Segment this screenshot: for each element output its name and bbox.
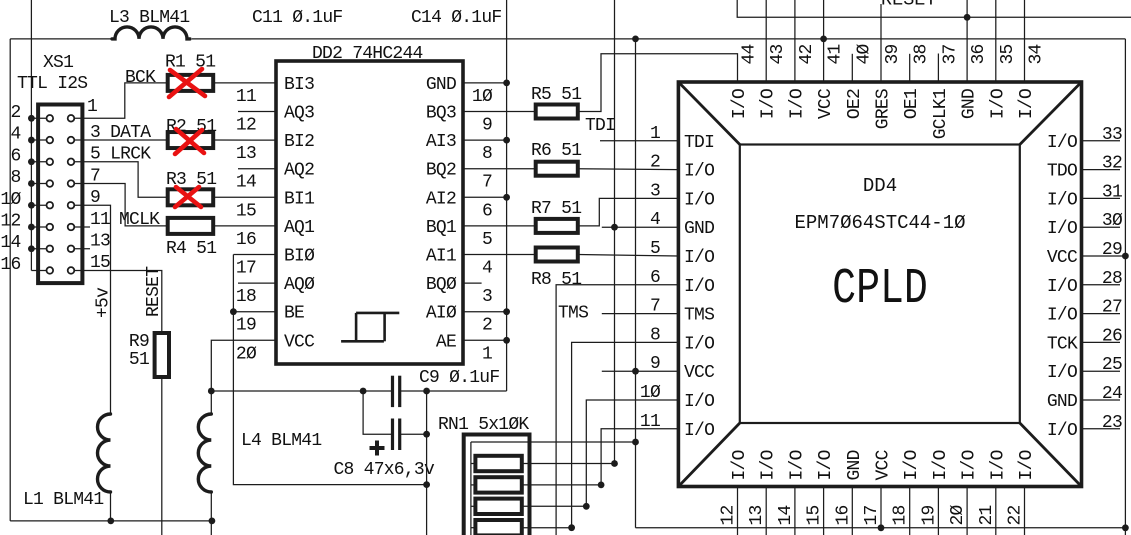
wire DD2 BQ3 to R5 bbox=[463, 111, 536, 113]
junction right vcc / CPLD pin 29 bbox=[1122, 253, 1129, 260]
wire +5V main horizontal (left of L3) bbox=[10, 38, 113, 40]
svg-text:2Ø: 2Ø bbox=[948, 504, 968, 525]
XS1 pin circle right bbox=[68, 158, 75, 165]
junction +5V / CPLD pin 41 bbox=[820, 36, 827, 43]
junction vcc bottom / CPLD pin 17 bbox=[878, 524, 885, 531]
svg-text:GND: GND bbox=[1047, 392, 1077, 412]
svg-text:34: 34 bbox=[1027, 44, 1047, 64]
svg-text:I/O: I/O bbox=[730, 450, 750, 480]
svg-text:GND: GND bbox=[845, 450, 865, 480]
svg-text:AIØ: AIØ bbox=[426, 304, 457, 324]
svg-text:15: 15 bbox=[236, 201, 256, 221]
DD2 gnd stub bbox=[463, 311, 507, 313]
CPLD bottom pin 21 line bbox=[995, 487, 997, 535]
resistor R2 bbox=[168, 132, 214, 148]
junction RN1 r2 bbox=[598, 482, 605, 489]
resistor R7 bbox=[536, 219, 578, 233]
svg-text:38: 38 bbox=[912, 44, 932, 64]
XS1 pin13 stub bbox=[75, 248, 90, 250]
gnd vertical 2 (to RN1) bbox=[614, 0, 616, 464]
svg-text:4: 4 bbox=[482, 259, 492, 279]
wire XS1 pin15 RESET down to R9 bbox=[75, 270, 162, 333]
wire vcc bottom bbox=[636, 527, 1126, 529]
svg-text:1: 1 bbox=[87, 97, 97, 117]
svg-text:MCLK: MCLK bbox=[119, 210, 160, 230]
junction C8 right bbox=[423, 431, 430, 438]
svg-text:I/O: I/O bbox=[1047, 277, 1077, 297]
CPLD right pin 33 stub bbox=[1082, 140, 1121, 142]
wire C9 right to gnd bbox=[400, 390, 507, 392]
XS1 pin circle left bbox=[47, 115, 54, 122]
CPLD right pin 24 stub bbox=[1082, 399, 1121, 401]
svg-text:XS1: XS1 bbox=[43, 53, 73, 73]
DD2 gnd stub bbox=[463, 339, 507, 341]
svg-text:AQ3: AQ3 bbox=[284, 104, 314, 124]
plus sign for C8 bbox=[370, 441, 385, 456]
RN1 resistor 4 right stub bbox=[522, 527, 572, 529]
svg-text:39: 39 bbox=[883, 44, 903, 64]
svg-text:AI3: AI3 bbox=[426, 132, 456, 152]
CPLD top pin 35 line bbox=[995, 0, 997, 82]
svg-text:BI2: BI2 bbox=[284, 132, 314, 152]
XS1 pin 12 wire bbox=[31, 226, 49, 228]
svg-text:14: 14 bbox=[0, 233, 20, 253]
wire XS1 pin7 to MCLK R4 bbox=[75, 184, 168, 226]
svg-text:VCC: VCC bbox=[284, 332, 315, 352]
CPLD bottom pin 22 line bbox=[1024, 487, 1026, 535]
svg-text:13: 13 bbox=[236, 144, 256, 164]
wire DD2 AI1 to R8 bbox=[463, 254, 536, 256]
RN1 resistor 4 left stub bbox=[471, 527, 476, 529]
XS1 pin circle right bbox=[68, 115, 75, 122]
DD2 pin 18 stub bbox=[238, 282, 276, 284]
wire R2 to DD2 pin 13 bbox=[213, 139, 276, 141]
junction ground bus pin row 6 bbox=[28, 224, 35, 231]
wire R8 to CPLD pin 5 bbox=[578, 255, 679, 257]
CPLD top pin 42 line bbox=[794, 0, 796, 82]
CPLD corner diagonal TL bbox=[678, 82, 739, 145]
CPLD top pin 34 line bbox=[1024, 0, 1026, 82]
XS1 pin circle left bbox=[47, 158, 54, 165]
svg-text:I/O: I/O bbox=[1017, 450, 1037, 480]
wire R5 to CPLD pin 44 bbox=[578, 54, 738, 112]
CPLD bottom pin 19 line bbox=[937, 487, 939, 535]
svg-text:I/O: I/O bbox=[816, 450, 836, 480]
schmitt trigger symbol inside DD2 bbox=[341, 340, 384, 343]
svg-text:R9: R9 bbox=[129, 332, 149, 352]
svg-text:RESET: RESET bbox=[881, 0, 937, 11]
CPLD right pin 28 stub bbox=[1082, 284, 1121, 286]
wire CPLD pin 11 to RN1 bbox=[601, 429, 678, 485]
junction vcc bottom / right vcc drop bbox=[1122, 524, 1129, 531]
right vcc drop bbox=[1124, 39, 1126, 535]
red X over R3 bbox=[175, 187, 201, 207]
DD2 gnd stub bbox=[463, 82, 507, 84]
wire bottom ground rail bbox=[10, 520, 212, 522]
junction gnd bbox=[503, 308, 510, 315]
svg-text:5: 5 bbox=[650, 239, 660, 259]
RN1 resistor 4 bbox=[475, 520, 521, 535]
svg-text:VCC: VCC bbox=[684, 363, 715, 383]
svg-text:26: 26 bbox=[1102, 326, 1122, 346]
junction BE net bbox=[230, 308, 237, 315]
svg-text:3Ø: 3Ø bbox=[1102, 211, 1123, 231]
wire left +5V drop to bottom rail bbox=[9, 39, 11, 521]
svg-text:DD4: DD4 bbox=[863, 175, 897, 197]
wire DD2 BQ2 to R6 bbox=[463, 168, 536, 170]
svg-text:12: 12 bbox=[236, 116, 256, 136]
CPLD pin 1 TDI stub bbox=[600, 140, 678, 142]
svg-text:24: 24 bbox=[1102, 384, 1122, 404]
CPLD top pin 40 line bbox=[851, 54, 853, 82]
svg-text:8: 8 bbox=[10, 168, 20, 188]
junction ground bus pin row 4 bbox=[28, 180, 35, 187]
svg-text:CPLD: CPLD bbox=[832, 260, 928, 318]
CPLD corner diagonal BL bbox=[678, 423, 739, 487]
junction ground bus pin row 5 bbox=[28, 202, 35, 209]
svg-text:28: 28 bbox=[1102, 269, 1122, 289]
XS1 pin11 stub bbox=[75, 226, 90, 228]
svg-text:3: 3 bbox=[482, 287, 492, 307]
RN1 resistor 2 right stub bbox=[522, 484, 601, 486]
svg-text:I/O: I/O bbox=[730, 89, 750, 119]
svg-text:L3 BLM41: L3 BLM41 bbox=[109, 8, 189, 28]
svg-text:TDI: TDI bbox=[585, 116, 615, 136]
svg-text:TDI: TDI bbox=[684, 133, 714, 153]
gnd vertical beside DD2 bbox=[506, 0, 508, 391]
junction ground bus pin row 1 bbox=[28, 115, 35, 122]
svg-text:TCK: TCK bbox=[1047, 334, 1078, 354]
svg-text:2: 2 bbox=[482, 316, 492, 336]
XS1 pin circle right bbox=[68, 202, 75, 209]
svg-text:OE2: OE2 bbox=[845, 89, 865, 119]
CPLD bottom pin 17 line bbox=[880, 487, 882, 528]
svg-text:VCC: VCC bbox=[874, 449, 894, 480]
svg-text:11: 11 bbox=[236, 87, 256, 107]
CPLD right pin 32 stub bbox=[1082, 169, 1121, 171]
wire XS1 pin5 LRCK to R3 bbox=[75, 162, 168, 198]
svg-text:RN1 5x1ØK: RN1 5x1ØK bbox=[438, 415, 529, 435]
svg-text:4: 4 bbox=[10, 125, 20, 145]
svg-text:I/O: I/O bbox=[1017, 89, 1037, 119]
svg-text:I/O: I/O bbox=[787, 89, 807, 119]
svg-text:OE1: OE1 bbox=[902, 89, 922, 119]
svg-text:BE: BE bbox=[284, 304, 304, 324]
junction +5V / vcc drop bbox=[632, 36, 639, 43]
wire DD2 pin 17 BI0 bbox=[233, 254, 276, 256]
CPLD bottom pin 16 line bbox=[851, 487, 853, 535]
wire R7 to CPLD pin 3 bbox=[578, 198, 679, 226]
svg-text:4: 4 bbox=[650, 210, 660, 230]
svg-text:2: 2 bbox=[10, 103, 20, 123]
svg-text:BQ3: BQ3 bbox=[426, 104, 456, 124]
DD2 pin 14 stub bbox=[238, 168, 276, 170]
CPLD corner diagonal TR bbox=[1020, 82, 1082, 145]
svg-text:I/O: I/O bbox=[988, 450, 1008, 480]
CPLD top pin 39 line bbox=[880, 4, 882, 82]
XS1 pin circle right bbox=[68, 137, 75, 144]
CPLD right pin 30 stub bbox=[1082, 226, 1121, 228]
RN1 resistor 1 bbox=[475, 456, 521, 471]
svg-text:I/O: I/O bbox=[902, 450, 922, 480]
svg-text:8: 8 bbox=[650, 325, 660, 345]
svg-text:BQØ: BQØ bbox=[426, 275, 457, 295]
svg-text:I/O: I/O bbox=[684, 162, 714, 182]
svg-text:12: 12 bbox=[719, 505, 739, 525]
svg-text:43: 43 bbox=[768, 44, 788, 64]
DD2 gnd stub bbox=[463, 196, 507, 198]
XS1 pin 14 wire bbox=[31, 248, 49, 250]
svg-text:3: 3 bbox=[650, 181, 660, 201]
svg-text:29: 29 bbox=[1102, 240, 1122, 260]
svg-text:41: 41 bbox=[826, 44, 846, 64]
junction BE / C8-gnd vertical bbox=[423, 481, 430, 488]
svg-text:I/O: I/O bbox=[1047, 219, 1077, 239]
resistor R3 bbox=[168, 189, 214, 205]
svg-text:BIØ: BIØ bbox=[284, 247, 315, 267]
CPLD bottom pin 12 line bbox=[737, 487, 739, 535]
svg-text:I/O: I/O bbox=[1047, 190, 1077, 210]
svg-text:42: 42 bbox=[797, 44, 817, 64]
resistor R9 bbox=[155, 333, 169, 377]
svg-text:AQ2: AQ2 bbox=[284, 161, 314, 181]
RN1 common vertical bbox=[470, 442, 472, 535]
junction L4 / ground rail bbox=[209, 518, 216, 525]
svg-text:17: 17 bbox=[862, 505, 882, 525]
svg-text:21: 21 bbox=[977, 505, 997, 525]
svg-text:I/O: I/O bbox=[931, 450, 951, 480]
XS1 pin circle left bbox=[47, 137, 54, 144]
svg-text:I/O: I/O bbox=[960, 450, 980, 480]
svg-text:GRES: GRES bbox=[874, 89, 894, 129]
RN1 resistor 1 right stub bbox=[522, 463, 615, 465]
CPLD pin 9 VCC stub bbox=[602, 370, 679, 372]
junction gnd bbox=[503, 337, 510, 344]
junction ground bus pin row 2 bbox=[28, 137, 35, 144]
CPLD bottom pin 14 line bbox=[794, 487, 796, 535]
svg-text:TMS: TMS bbox=[684, 306, 714, 326]
svg-text:C8 47x6,3v: C8 47x6,3v bbox=[334, 460, 435, 480]
svg-text:C9 Ø.1uF: C9 Ø.1uF bbox=[419, 368, 499, 388]
svg-text:I/O: I/O bbox=[684, 277, 714, 297]
svg-text:17: 17 bbox=[236, 259, 256, 279]
svg-text:18: 18 bbox=[236, 287, 256, 307]
resistor R8 bbox=[536, 248, 578, 262]
wire XS1 pin3 DATA to R2 bbox=[75, 139, 168, 141]
svg-text:7: 7 bbox=[650, 297, 660, 317]
svg-text:I/O: I/O bbox=[988, 89, 1008, 119]
svg-text:I/O: I/O bbox=[1047, 363, 1077, 383]
svg-text:2: 2 bbox=[650, 153, 660, 173]
svg-text:BCK: BCK bbox=[125, 68, 156, 88]
svg-text:TMS: TMS bbox=[558, 304, 588, 324]
svg-text:I/O: I/O bbox=[1047, 421, 1077, 441]
svg-text:1Ø: 1Ø bbox=[640, 383, 661, 403]
svg-text:6: 6 bbox=[10, 146, 20, 166]
svg-text:GCLK1: GCLK1 bbox=[931, 89, 951, 139]
wire CPLD pin 10 to RN1 bbox=[586, 400, 678, 506]
XS1 pin circle right bbox=[68, 267, 75, 274]
svg-text:R7 51: R7 51 bbox=[531, 199, 581, 219]
CPLD top pin 36 line bbox=[966, 0, 968, 82]
resistor R1 bbox=[168, 75, 214, 91]
DD2 pin 3 BQ0 stub bbox=[463, 282, 482, 284]
svg-text:RESET: RESET bbox=[144, 266, 164, 317]
svg-text:4Ø: 4Ø bbox=[854, 43, 874, 64]
XS1 pin 4 wire bbox=[31, 139, 49, 141]
svg-text:9: 9 bbox=[482, 116, 492, 136]
svg-text:18: 18 bbox=[891, 505, 911, 525]
IC DD2 74HC244 body bbox=[276, 61, 463, 364]
svg-text:BQ1: BQ1 bbox=[426, 218, 456, 238]
svg-text:AI1: AI1 bbox=[426, 247, 456, 267]
wire +5V main horizontal (right of L3) bbox=[192, 38, 1125, 40]
CPLD inner body bbox=[740, 145, 1020, 424]
connector XS1 body bbox=[38, 105, 82, 284]
resistor network RN1 body bbox=[464, 435, 530, 535]
XS1 pin 6 wire bbox=[31, 161, 49, 163]
resistor R6 bbox=[536, 162, 578, 176]
svg-text:R2 51: R2 51 bbox=[166, 117, 216, 137]
wire R4 to DD2 pin 16 bbox=[213, 225, 276, 227]
svg-text:19: 19 bbox=[919, 505, 939, 525]
svg-text:2Ø: 2Ø bbox=[236, 344, 257, 364]
svg-text:L4 BLM41: L4 BLM41 bbox=[241, 431, 321, 451]
svg-text:I/O: I/O bbox=[684, 190, 714, 210]
CPLD right pin 27 stub bbox=[1082, 313, 1121, 315]
XS1 pin 2 wire bbox=[31, 117, 49, 119]
CPLD right pin 25 stub bbox=[1082, 370, 1121, 372]
CPLD right pin 23 stub bbox=[1082, 428, 1121, 430]
wire L4 bottom bbox=[210, 492, 212, 535]
CPLD top pin 43 line bbox=[765, 0, 767, 82]
svg-text:1Ø: 1Ø bbox=[472, 87, 493, 107]
wire DD2 BQ1 to R7 bbox=[463, 225, 536, 227]
svg-text:I/O: I/O bbox=[684, 392, 714, 412]
RN1 resistor 3 bbox=[475, 499, 521, 514]
wire DD2 pin 20 VCC to L4 bbox=[211, 340, 276, 414]
svg-text:BI3: BI3 bbox=[284, 75, 314, 95]
junction ground bus pin row 7 bbox=[28, 245, 35, 252]
CPLD bottom pin 20 line bbox=[966, 487, 968, 535]
CPLD top pin 38 line bbox=[909, 54, 911, 82]
junction L1 / ground rail bbox=[107, 518, 114, 525]
svg-text:AI2: AI2 bbox=[426, 189, 456, 209]
svg-text:EPM7Ø64STC44-1Ø: EPM7Ø64STC44-1Ø bbox=[794, 212, 965, 234]
CPLD pin 4 GND stub bbox=[602, 226, 679, 228]
wire R1 to DD2 pin 11 bbox=[213, 82, 276, 84]
svg-text:6: 6 bbox=[650, 268, 660, 288]
wire CPLD pin 6 down bbox=[556, 285, 678, 535]
CPLD pin 7 TMS stub bbox=[602, 313, 679, 315]
svg-text:32: 32 bbox=[1102, 154, 1122, 174]
XS1 pin circle left bbox=[47, 267, 54, 274]
svg-text:+5v: +5v bbox=[94, 287, 114, 318]
svg-text:GND: GND bbox=[684, 219, 714, 239]
svg-text:DD2 74HC244: DD2 74HC244 bbox=[312, 44, 423, 64]
svg-text:I/O: I/O bbox=[684, 334, 714, 354]
red X over R1 bbox=[169, 69, 205, 97]
svg-text:9: 9 bbox=[650, 354, 660, 374]
svg-text:6: 6 bbox=[482, 201, 492, 221]
RN1 resistor 3 right stub bbox=[522, 505, 587, 507]
svg-text:11: 11 bbox=[90, 210, 110, 230]
wire C8 branch left bbox=[363, 391, 392, 434]
junction gnd2 / CPLD pin 4 bbox=[611, 224, 618, 231]
svg-text:AQØ: AQØ bbox=[284, 275, 315, 295]
svg-text:I/O: I/O bbox=[1047, 133, 1077, 153]
wire RESET net (top right) bbox=[737, 0, 1131, 17]
svg-text:VCC: VCC bbox=[1047, 248, 1078, 268]
CPLD top pin 41 line bbox=[823, 0, 825, 82]
wire RESET through R9 region bbox=[161, 377, 163, 535]
svg-text:8: 8 bbox=[482, 144, 492, 164]
RN1 resistor 2 left stub bbox=[471, 484, 476, 486]
wire BE vertical bbox=[233, 255, 426, 485]
junction C9 right branch bbox=[423, 388, 430, 395]
junction RESET / CPLD pin 36 bbox=[964, 14, 971, 21]
svg-text:1: 1 bbox=[482, 344, 492, 364]
junction gnd bbox=[503, 80, 510, 87]
svg-text:GND: GND bbox=[960, 89, 980, 119]
XS1 pin 16 wire bbox=[31, 269, 49, 271]
svg-text:16: 16 bbox=[0, 255, 20, 275]
junction RN1 r1 / gnd2 bbox=[611, 460, 618, 467]
DD2 gnd stub bbox=[463, 139, 507, 141]
wire CPLD pin 8 to RN1 bbox=[572, 342, 679, 527]
svg-text:37: 37 bbox=[940, 44, 960, 64]
inductor L1 bbox=[98, 414, 111, 492]
CPLD DD4 outer body bbox=[678, 82, 1081, 487]
ground bus vertical at left bbox=[30, 0, 32, 270]
CPLD right pin 26 stub bbox=[1082, 341, 1121, 343]
RN1 resistor 3 left stub bbox=[471, 505, 476, 507]
capacitor C9 bbox=[391, 376, 394, 407]
svg-text:I/O: I/O bbox=[787, 450, 807, 480]
junction vcc / RN1 common bbox=[632, 439, 639, 446]
svg-text:TDO: TDO bbox=[1047, 162, 1077, 182]
svg-text:36: 36 bbox=[969, 44, 989, 64]
svg-text:AE: AE bbox=[436, 332, 456, 352]
svg-text:AQ1: AQ1 bbox=[284, 218, 314, 238]
junction RN1 r3 bbox=[583, 503, 590, 510]
svg-text:14: 14 bbox=[776, 505, 796, 525]
svg-text:R4 51: R4 51 bbox=[166, 239, 216, 259]
svg-text:BI1: BI1 bbox=[284, 189, 314, 209]
XS1 pin circle left bbox=[47, 245, 54, 252]
inductor L3 bbox=[112, 27, 190, 39]
svg-text:7: 7 bbox=[482, 173, 492, 193]
svg-text:1Ø: 1Ø bbox=[0, 190, 21, 210]
svg-text:I/O: I/O bbox=[684, 248, 714, 268]
svg-text:23: 23 bbox=[1102, 413, 1122, 433]
DD2 pin 12 stub bbox=[238, 111, 276, 113]
wire L1 bottom bbox=[110, 492, 112, 521]
svg-text:22: 22 bbox=[1006, 505, 1026, 525]
svg-text:L1 BLM41: L1 BLM41 bbox=[23, 490, 103, 510]
resistor R5 bbox=[536, 105, 578, 119]
XS1 pin circle left bbox=[47, 180, 54, 187]
XS1 pin 8 wire bbox=[31, 183, 49, 185]
XS1 pin circle right bbox=[68, 224, 75, 231]
junction C9/C8 branch bbox=[360, 388, 367, 395]
svg-text:R3 51: R3 51 bbox=[166, 170, 216, 190]
svg-text:I/O: I/O bbox=[1047, 306, 1077, 326]
svg-text:VCC: VCC bbox=[816, 88, 836, 119]
RN1 common wire to vcc bbox=[471, 441, 636, 443]
RN1 resistor 1 left stub bbox=[471, 463, 476, 465]
resistor R4 bbox=[168, 218, 214, 234]
